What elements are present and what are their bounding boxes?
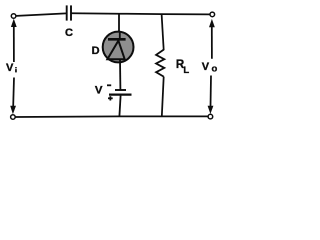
- svg-text:V: V: [6, 62, 14, 74]
- svg-text:L: L: [183, 65, 189, 76]
- svg-text:V: V: [202, 61, 210, 73]
- svg-text:C: C: [65, 27, 73, 39]
- svg-text:o: o: [212, 64, 218, 75]
- svg-text:D: D: [92, 45, 100, 57]
- svg-text:V: V: [95, 84, 103, 96]
